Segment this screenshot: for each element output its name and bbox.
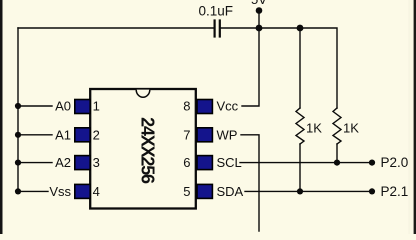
svg-text:5V: 5V xyxy=(251,0,267,7)
junction dot 5V node xyxy=(256,25,263,32)
pin 5 pad xyxy=(197,184,212,198)
junction dot R1 top on rail xyxy=(297,25,304,32)
svg-text:2: 2 xyxy=(93,127,100,142)
svg-text:8: 8 xyxy=(183,99,190,114)
svg-text:7: 7 xyxy=(183,127,190,142)
wire: left vertical rail joining A0 A1 A2 Vss xyxy=(17,28,19,191)
pin 3 pad xyxy=(75,156,90,170)
wire: SDA line to P2.1 xyxy=(245,190,371,192)
junction dot Vss xyxy=(15,188,21,194)
svg-text:SCL: SCL xyxy=(217,155,242,170)
scan border left edge xyxy=(0,0,3,234)
svg-text:3: 3 xyxy=(93,155,100,170)
wire: 5V terminal stem xyxy=(258,11,260,28)
pin 7 pad xyxy=(197,128,212,142)
resistor R2 xyxy=(333,108,341,144)
svg-text:6: 6 xyxy=(183,155,190,170)
power terminal dot 5V xyxy=(256,7,263,14)
svg-text:5: 5 xyxy=(183,184,190,199)
wire: A2 pin stub xyxy=(18,162,52,164)
wire: WP branch down off page xyxy=(241,135,259,231)
svg-text:A1: A1 xyxy=(55,127,71,142)
svg-text:A0: A0 xyxy=(55,99,71,114)
wire: A0 pin stub xyxy=(18,105,52,107)
svg-text:Vcc: Vcc xyxy=(217,99,239,114)
pin 1 pad xyxy=(75,100,90,114)
wire: A1 pin stub xyxy=(18,134,52,136)
capacitor C1 xyxy=(215,21,220,37)
wire: Vcc branch up to 5V rail xyxy=(242,28,259,106)
svg-text:P2.1: P2.1 xyxy=(381,184,409,199)
IC notch xyxy=(136,90,150,98)
resistor R1 xyxy=(296,108,304,144)
svg-text:1: 1 xyxy=(93,99,100,114)
svg-text:P2.0: P2.0 xyxy=(381,155,409,170)
junction dot R1 bottom on SDA xyxy=(297,188,303,194)
wire: Vss pin stub xyxy=(18,190,48,192)
svg-text:1K: 1K xyxy=(306,121,322,136)
wire: top rail from left rail to capacitor xyxy=(18,27,213,29)
svg-text:A2: A2 xyxy=(55,155,71,170)
wire: capacitor right plate to 5V node and across to R2 corner, down to R2 xyxy=(221,28,337,108)
svg-text:WP: WP xyxy=(217,127,238,142)
junction dot A1 xyxy=(15,132,21,138)
scan border right edge xyxy=(414,0,416,234)
pin 2 pad xyxy=(75,128,90,142)
junction dot A2 xyxy=(15,160,21,166)
terminal dot P2.0 xyxy=(369,160,375,166)
pin 4 pad xyxy=(75,184,90,198)
svg-text:0.1uF: 0.1uF xyxy=(199,4,234,19)
wire: R1 bottom lead to SDA line xyxy=(299,144,301,191)
svg-text:1K: 1K xyxy=(343,121,359,136)
pin 6 pad xyxy=(197,156,212,170)
wire: SCL line to P2.0 xyxy=(240,162,371,164)
svg-text:4: 4 xyxy=(93,184,100,199)
IC U1 body 24XX256 xyxy=(90,89,196,209)
pin 8 pad xyxy=(197,100,212,114)
junction dot A0 xyxy=(15,103,21,109)
svg-text:SDA: SDA xyxy=(217,184,244,199)
wire: R1 top lead from rail xyxy=(299,28,301,108)
svg-text:Vss: Vss xyxy=(49,184,71,199)
svg-text:24XX256: 24XX256 xyxy=(138,117,158,184)
wire: R2 bottom lead to SCL line xyxy=(336,144,338,163)
terminal dot P2.1 xyxy=(369,188,375,194)
junction dot R2 bottom on SCL xyxy=(334,160,340,166)
